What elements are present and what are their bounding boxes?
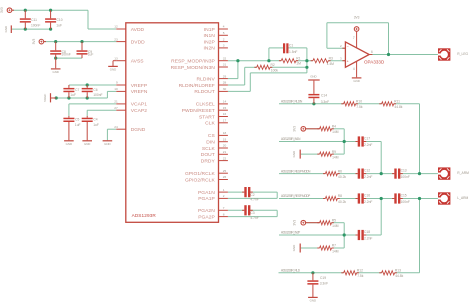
svg-text:ADS1293R_IN2P: ADS1293R_IN2P — [281, 231, 300, 235]
svg-text:18: 18 — [223, 131, 227, 135]
svg-text:C16: C16 — [364, 194, 370, 198]
svg-text:VCAP1: VCAP1 — [131, 102, 148, 108]
svg-text:GND: GND — [310, 74, 316, 78]
svg-text:GND: GND — [66, 142, 72, 146]
svg-text:C11: C11 — [31, 18, 37, 22]
svg-text:23: 23 — [114, 37, 118, 41]
svg-text:R8: R8 — [338, 194, 342, 198]
svg-text:5: 5 — [223, 31, 225, 35]
svg-text:100nF: 100nF — [31, 24, 40, 28]
svg-text:2.2nF: 2.2nF — [364, 200, 372, 204]
svg-text:GND: GND — [52, 70, 58, 74]
svg-text:9: 9 — [116, 81, 118, 85]
svg-text:R7: R7 — [332, 244, 336, 248]
svg-text:31: 31 — [223, 63, 227, 67]
svg-text:RLDOUT: RLDOUT — [194, 89, 214, 95]
svg-text:15: 15 — [223, 106, 227, 110]
svg-text:100k: 100k — [271, 68, 279, 72]
svg-text:7: 7 — [223, 206, 225, 210]
svg-text:GPIO1/RCLK: GPIO1/RCLK — [185, 171, 216, 177]
svg-text:RESP_MODN/IN3N: RESP_MODN/IN3N — [171, 65, 216, 71]
svg-text:R3: R3 — [329, 56, 333, 60]
svg-text:C12: C12 — [364, 169, 370, 173]
svg-text:GND: GND — [110, 68, 116, 72]
svg-text:PGA1P: PGA1P — [198, 196, 215, 202]
svg-text:R_LEG: R_LEG — [457, 52, 468, 56]
svg-text:GND: GND — [4, 26, 8, 32]
svg-text:C1: C1 — [289, 43, 293, 47]
svg-text:100nF: 100nF — [401, 175, 410, 179]
svg-text:SCLK: SCLK — [202, 146, 216, 152]
svg-text:12: 12 — [114, 25, 118, 29]
svg-text:1.4M: 1.4M — [327, 62, 335, 66]
svg-text:DRDY: DRDY — [201, 158, 216, 164]
svg-text:START: START — [199, 114, 215, 120]
svg-text:C5: C5 — [75, 118, 79, 122]
svg-text:29: 29 — [223, 74, 227, 78]
svg-text:7: 7 — [353, 36, 355, 40]
svg-text:OPA333D: OPA333D — [364, 59, 385, 64]
svg-text:3V3: 3V3 — [292, 220, 296, 226]
svg-text:19: 19 — [223, 137, 227, 141]
svg-text:100nF: 100nF — [61, 52, 70, 56]
svg-text:22: 22 — [223, 156, 227, 160]
svg-text:4: 4 — [353, 67, 355, 71]
svg-text:RLDIN/RLDREF: RLDIN/RLDREF — [179, 83, 215, 89]
svg-text:14M: 14M — [332, 249, 339, 253]
svg-text:GND: GND — [310, 299, 316, 303]
svg-text:VCAP2: VCAP2 — [131, 108, 148, 114]
svg-text:30: 30 — [223, 87, 227, 91]
svg-text:RLDINV: RLDINV — [197, 76, 216, 82]
svg-text:27: 27 — [114, 106, 118, 110]
svg-text:R13: R13 — [395, 269, 401, 273]
svg-text:3V3: 3V3 — [0, 7, 4, 13]
svg-text:21: 21 — [114, 100, 118, 104]
svg-text:13: 13 — [114, 56, 118, 60]
svg-text:GPIO2/RCLK: GPIO2/RCLK — [185, 177, 216, 183]
svg-text:1M: 1M — [296, 61, 301, 65]
svg-text:44.8k: 44.8k — [395, 274, 403, 278]
svg-text:R9: R9 — [332, 150, 336, 154]
svg-text:DGND: DGND — [131, 127, 146, 133]
svg-text:1uF: 1uF — [88, 52, 94, 56]
svg-text:C18: C18 — [364, 230, 370, 234]
svg-text:DIN: DIN — [206, 140, 215, 146]
svg-text:14M: 14M — [332, 224, 339, 228]
svg-text:3V3: 3V3 — [32, 39, 36, 45]
svg-text:CS: CS — [208, 133, 216, 139]
svg-text:R10: R10 — [356, 100, 362, 104]
svg-text:ADS1293R_IN1N: ADS1293R_IN1N — [281, 137, 301, 141]
svg-text:+: + — [347, 59, 349, 63]
svg-text:8: 8 — [223, 212, 225, 216]
svg-text:PGA1N: PGA1N — [198, 190, 215, 196]
svg-text:R2: R2 — [271, 63, 275, 67]
svg-text:6: 6 — [371, 50, 373, 54]
svg-text:ADS1293R_RESP-MODP: ADS1293R_RESP-MODP — [281, 194, 310, 198]
svg-text:IN2N: IN2N — [203, 46, 215, 52]
svg-text:C2: C2 — [250, 193, 254, 197]
svg-text:C19: C19 — [320, 276, 326, 280]
svg-text:C3: C3 — [250, 211, 254, 215]
svg-text:20: 20 — [223, 144, 227, 148]
svg-text:DOUT: DOUT — [201, 152, 215, 158]
svg-text:−: − — [347, 44, 349, 48]
svg-text:R12: R12 — [357, 269, 363, 273]
svg-text:VREF: VREF — [43, 94, 47, 102]
svg-text:44.8k: 44.8k — [394, 105, 402, 109]
svg-text:PWDN/RESET: PWDN/RESET — [182, 108, 215, 114]
svg-text:VREFN: VREFN — [131, 89, 148, 95]
svg-text:14M: 14M — [332, 155, 339, 159]
svg-text:40.2k: 40.2k — [338, 175, 346, 179]
svg-text:14: 14 — [223, 100, 227, 104]
svg-text:C7: C7 — [75, 88, 79, 92]
svg-text:3V3: 3V3 — [292, 126, 296, 132]
svg-text:10: 10 — [114, 87, 118, 91]
svg-text:PGA2P: PGA2P — [198, 214, 215, 220]
svg-text:28: 28 — [223, 81, 227, 85]
svg-text:GND: GND — [104, 142, 110, 146]
svg-text:CLKSEL: CLKSEL — [196, 102, 215, 108]
svg-text:R11: R11 — [394, 100, 400, 104]
svg-text:IN1N: IN1N — [203, 33, 215, 39]
svg-text:PGA2N: PGA2N — [198, 208, 215, 214]
svg-text:IN2P: IN2P — [204, 39, 215, 45]
svg-text:ADS1293R_RESP-MODN: ADS1293R_RESP-MODN — [281, 169, 311, 173]
svg-text:17: 17 — [223, 119, 227, 123]
svg-text:100nF: 100nF — [93, 93, 102, 97]
svg-text:R6: R6 — [338, 169, 342, 173]
svg-text:16: 16 — [223, 112, 227, 116]
svg-text:2: 2 — [223, 37, 225, 41]
svg-text:C15: C15 — [401, 194, 407, 198]
svg-text:C14: C14 — [321, 93, 327, 97]
svg-text:R4: R4 — [332, 125, 336, 129]
svg-text:1uF: 1uF — [75, 123, 81, 127]
svg-text:GND: GND — [292, 245, 296, 251]
svg-text:VREFP: VREFP — [131, 83, 148, 89]
svg-text:1uF: 1uF — [56, 24, 62, 28]
svg-text:C4: C4 — [93, 118, 97, 122]
svg-text:1: 1 — [223, 188, 225, 192]
svg-text:1uF: 1uF — [93, 123, 99, 127]
svg-text:C13: C13 — [401, 169, 407, 173]
svg-text:GND: GND — [353, 79, 359, 83]
svg-text:26: 26 — [223, 175, 227, 179]
svg-text:ADS1293R: ADS1293R — [132, 213, 157, 218]
svg-text:3: 3 — [223, 44, 225, 48]
svg-text:GND: GND — [84, 142, 90, 146]
svg-text:C10: C10 — [57, 18, 63, 22]
svg-text:4: 4 — [223, 25, 225, 29]
svg-text:24: 24 — [114, 125, 118, 129]
svg-text:ADS1293R_RLD: ADS1293R_RLD — [281, 269, 301, 273]
svg-text:DVDD: DVDD — [131, 39, 145, 45]
svg-text:C6: C6 — [93, 88, 97, 92]
svg-text:3.3nF: 3.3nF — [320, 281, 328, 285]
svg-text:R_ARM: R_ARM — [457, 171, 469, 175]
svg-text:40.2k: 40.2k — [338, 200, 346, 204]
svg-text:3.3nF: 3.3nF — [321, 100, 329, 104]
svg-text:RESP_MODP/IN3P: RESP_MODP/IN3P — [171, 59, 215, 65]
svg-text:7.5k: 7.5k — [357, 274, 364, 278]
svg-text:AVSS: AVSS — [131, 59, 145, 65]
svg-text:25: 25 — [223, 169, 227, 173]
svg-text:4.7nF: 4.7nF — [250, 198, 258, 202]
svg-text:2.2nF: 2.2nF — [364, 237, 372, 241]
svg-text:4.7nF: 4.7nF — [250, 216, 258, 220]
svg-text:CLK: CLK — [205, 121, 215, 127]
svg-text:32: 32 — [223, 56, 227, 60]
svg-text:7.5k: 7.5k — [356, 105, 363, 109]
svg-text:AVDD: AVDD — [131, 27, 145, 33]
svg-text:ADS1293R_RLDIN: ADS1293R_RLDIN — [281, 100, 303, 104]
svg-text:14M: 14M — [332, 130, 339, 134]
svg-text:R1: R1 — [296, 56, 300, 60]
svg-text:L_ARM: L_ARM — [457, 196, 468, 200]
svg-text:21: 21 — [223, 150, 227, 154]
svg-text:3V3: 3V3 — [354, 16, 360, 20]
svg-text:2: 2 — [223, 194, 225, 198]
svg-text:2.2nF: 2.2nF — [364, 175, 372, 179]
svg-text:C17: C17 — [364, 137, 370, 141]
svg-text:GND: GND — [292, 151, 296, 157]
svg-text:1.5nF: 1.5nF — [289, 50, 297, 54]
svg-text:2.2nF: 2.2nF — [364, 143, 372, 147]
svg-text:100nF: 100nF — [401, 200, 410, 204]
svg-text:IN1P: IN1P — [204, 27, 215, 33]
svg-text:1uF: 1uF — [70, 93, 76, 97]
svg-text:R5: R5 — [332, 218, 336, 222]
